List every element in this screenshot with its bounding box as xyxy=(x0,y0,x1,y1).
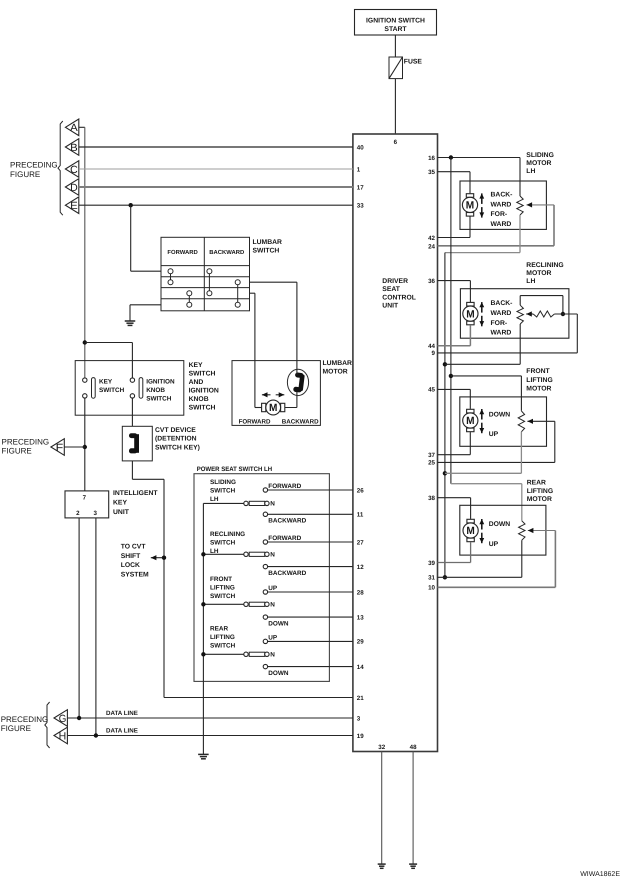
svg-text:10: 10 xyxy=(428,585,435,592)
svg-text:DATA LINE: DATA LINE xyxy=(106,710,138,717)
svg-text:31: 31 xyxy=(428,575,435,582)
svg-text:WARD: WARD xyxy=(491,201,512,208)
svg-text:14: 14 xyxy=(357,664,364,671)
svg-text:SLIDING: SLIDING xyxy=(526,152,554,159)
svg-text:FORWARD: FORWARD xyxy=(167,249,197,256)
svg-text:38: 38 xyxy=(428,495,435,502)
svg-text:M: M xyxy=(269,402,278,414)
svg-text:44: 44 xyxy=(428,343,435,350)
svg-text:SWITCH: SWITCH xyxy=(146,396,172,403)
svg-text:7: 7 xyxy=(83,494,87,501)
svg-text:1: 1 xyxy=(357,166,361,173)
svg-text:PRECEDING: PRECEDING xyxy=(10,161,58,170)
svg-text:27: 27 xyxy=(357,539,364,546)
svg-text:M: M xyxy=(466,525,475,537)
svg-text:LH: LH xyxy=(526,168,535,175)
svg-text:B: B xyxy=(70,142,78,154)
svg-text:KEY: KEY xyxy=(99,378,113,385)
svg-text:FRONT: FRONT xyxy=(210,576,232,583)
svg-text:SWITCH: SWITCH xyxy=(210,539,236,546)
svg-text:M: M xyxy=(466,308,475,320)
svg-text:26: 26 xyxy=(357,487,364,494)
svg-text:FIGURE: FIGURE xyxy=(2,447,32,456)
svg-text:DOWN: DOWN xyxy=(268,620,289,627)
svg-text:45: 45 xyxy=(428,387,435,394)
svg-text:RECLINING: RECLINING xyxy=(210,531,245,538)
svg-text:29: 29 xyxy=(357,639,364,646)
svg-text:FOR-: FOR- xyxy=(491,211,508,218)
svg-text:BACKWARD: BACKWARD xyxy=(268,570,306,577)
svg-text:KNOB: KNOB xyxy=(146,387,165,394)
svg-text:KEY: KEY xyxy=(113,500,127,507)
svg-text:33: 33 xyxy=(357,203,364,210)
svg-text:N: N xyxy=(270,652,275,659)
svg-text:UNIT: UNIT xyxy=(382,303,399,310)
svg-text:MOTOR: MOTOR xyxy=(323,368,348,375)
svg-text:LIFTING: LIFTING xyxy=(210,584,235,591)
svg-text:UP: UP xyxy=(268,635,278,642)
svg-text:13: 13 xyxy=(357,614,364,621)
svg-text:E: E xyxy=(70,200,78,212)
svg-text:FIGURE: FIGURE xyxy=(10,170,40,179)
svg-text:DOWN: DOWN xyxy=(489,521,511,528)
svg-text:KNOB: KNOB xyxy=(189,396,209,403)
svg-text:LH: LH xyxy=(526,278,535,285)
svg-text:RECLINING: RECLINING xyxy=(526,262,563,269)
svg-text:SWITCH: SWITCH xyxy=(99,387,125,394)
svg-text:LUMBAR: LUMBAR xyxy=(253,239,283,246)
svg-text:DRIVER: DRIVER xyxy=(382,278,408,285)
svg-text:SYSTEM: SYSTEM xyxy=(121,571,149,578)
svg-text:24: 24 xyxy=(428,244,435,251)
svg-text:21: 21 xyxy=(357,695,364,702)
svg-text:N: N xyxy=(270,501,275,508)
svg-text:REAR: REAR xyxy=(210,625,228,632)
svg-text:37: 37 xyxy=(428,452,435,459)
svg-text:25: 25 xyxy=(428,460,435,467)
svg-text:SWITCH: SWITCH xyxy=(189,405,216,412)
svg-text:32: 32 xyxy=(378,744,385,751)
svg-text:SHIFT: SHIFT xyxy=(121,553,141,560)
svg-text:3: 3 xyxy=(357,715,361,722)
svg-text:WARD: WARD xyxy=(491,310,512,317)
svg-text:SWITCH: SWITCH xyxy=(210,487,236,494)
svg-text:SWITCH: SWITCH xyxy=(210,593,236,600)
svg-text:MOTOR: MOTOR xyxy=(526,160,551,167)
svg-text:FUSE: FUSE xyxy=(404,58,423,65)
svg-text:16: 16 xyxy=(428,155,435,162)
svg-text:PRECEDING: PRECEDING xyxy=(2,437,50,446)
svg-text:35: 35 xyxy=(428,169,435,176)
svg-text:SEAT: SEAT xyxy=(382,286,400,293)
svg-text:9: 9 xyxy=(432,350,436,357)
svg-text:N: N xyxy=(270,602,275,609)
svg-text:LIFTING: LIFTING xyxy=(210,634,235,641)
svg-text:SLIDING: SLIDING xyxy=(210,479,236,486)
svg-text:CVT DEVICE: CVT DEVICE xyxy=(155,427,196,434)
svg-text:DATA LINE: DATA LINE xyxy=(106,728,138,735)
svg-text:WARD: WARD xyxy=(491,330,512,337)
svg-text:AND: AND xyxy=(189,379,204,386)
svg-text:SWITCH KEY): SWITCH KEY) xyxy=(155,444,200,451)
svg-text:LIFTING: LIFTING xyxy=(526,377,552,384)
svg-text:UP: UP xyxy=(489,431,499,438)
svg-text:LIFTING: LIFTING xyxy=(527,488,553,495)
svg-text:2: 2 xyxy=(76,510,80,517)
svg-text:FRONT: FRONT xyxy=(526,368,550,375)
svg-text:28: 28 xyxy=(357,589,364,596)
svg-text:START: START xyxy=(384,26,407,33)
svg-text:6: 6 xyxy=(394,139,398,146)
svg-text:LOCK: LOCK xyxy=(121,562,140,569)
svg-text:40: 40 xyxy=(357,144,364,151)
svg-text:36: 36 xyxy=(428,278,435,285)
svg-text:IGNITION SWITCH: IGNITION SWITCH xyxy=(366,18,425,25)
svg-text:DOWN: DOWN xyxy=(489,411,511,418)
svg-text:REAR: REAR xyxy=(527,479,546,486)
svg-text:3: 3 xyxy=(93,510,97,517)
svg-text:17: 17 xyxy=(357,184,364,191)
svg-text:N: N xyxy=(270,552,275,559)
svg-text:CONTROL: CONTROL xyxy=(382,294,416,301)
svg-text:POWER SEAT SWITCH LH: POWER SEAT SWITCH LH xyxy=(197,466,273,473)
svg-text:LUMBAR: LUMBAR xyxy=(323,360,353,367)
svg-text:INTELLIGENT: INTELLIGENT xyxy=(113,490,158,497)
svg-text:39: 39 xyxy=(428,560,435,567)
svg-text:H: H xyxy=(59,730,67,742)
svg-text:UNIT: UNIT xyxy=(113,509,130,516)
svg-text:IGNITION: IGNITION xyxy=(189,387,219,394)
svg-text:C: C xyxy=(70,164,78,176)
svg-text:LH: LH xyxy=(210,496,219,503)
svg-text:PRECEDING: PRECEDING xyxy=(1,715,49,724)
svg-text:FORWARD: FORWARD xyxy=(268,535,301,542)
svg-text:WIWA1862E: WIWA1862E xyxy=(580,871,620,878)
svg-text:MOTOR: MOTOR xyxy=(526,385,551,392)
svg-text:G: G xyxy=(59,713,67,725)
svg-text:SWITCH: SWITCH xyxy=(253,247,280,254)
svg-text:TO CVT: TO CVT xyxy=(121,543,147,550)
svg-text:BACKWARD: BACKWARD xyxy=(209,249,244,256)
svg-text:M: M xyxy=(466,200,475,212)
svg-text:FORWARD: FORWARD xyxy=(268,483,301,490)
svg-text:SWITCH: SWITCH xyxy=(189,370,216,377)
svg-text:A: A xyxy=(70,122,78,134)
svg-text:FIGURE: FIGURE xyxy=(1,724,31,733)
svg-text:11: 11 xyxy=(357,512,364,519)
svg-text:WARD: WARD xyxy=(491,221,512,228)
svg-text:MOTOR: MOTOR xyxy=(526,270,551,277)
svg-text:KEY: KEY xyxy=(189,362,203,369)
svg-text:DOWN: DOWN xyxy=(268,670,289,677)
svg-text:FORWARD: FORWARD xyxy=(239,418,271,425)
svg-text:48: 48 xyxy=(410,744,417,751)
svg-text:FOR-: FOR- xyxy=(491,320,508,327)
svg-text:F: F xyxy=(56,442,64,454)
svg-text:IGNITION: IGNITION xyxy=(146,378,175,385)
svg-text:(DETENTION: (DETENTION xyxy=(155,436,197,443)
svg-text:12: 12 xyxy=(357,564,364,571)
svg-text:UP: UP xyxy=(489,541,499,548)
svg-text:D: D xyxy=(70,182,78,194)
svg-text:BACKWARD: BACKWARD xyxy=(282,418,319,425)
svg-text:42: 42 xyxy=(428,235,435,242)
svg-text:BACKWARD: BACKWARD xyxy=(268,518,306,525)
svg-text:BACK-: BACK- xyxy=(491,191,513,198)
svg-text:19: 19 xyxy=(357,733,364,740)
svg-text:M: M xyxy=(466,415,475,427)
svg-text:UP: UP xyxy=(268,585,278,592)
svg-text:BACK-: BACK- xyxy=(491,300,513,307)
svg-text:SWITCH: SWITCH xyxy=(210,643,236,650)
svg-text:MOTOR: MOTOR xyxy=(527,496,552,503)
